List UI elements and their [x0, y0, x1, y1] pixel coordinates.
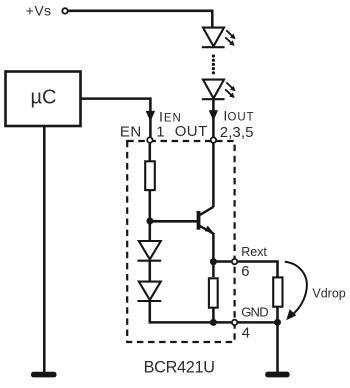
svg-text:OUT: OUT — [175, 123, 208, 140]
svg-text:µC: µC — [31, 86, 57, 108]
svg-text:Vdrop: Vdrop — [312, 286, 345, 300]
svg-text:Rext: Rext — [241, 245, 267, 259]
svg-text:BCR421U: BCR421U — [144, 358, 215, 376]
svg-text:EN: EN — [164, 112, 182, 124]
svg-text:+Vs: +Vs — [26, 3, 52, 19]
svg-text:EN: EN — [120, 123, 142, 140]
svg-text:GND: GND — [241, 305, 268, 320]
svg-text:6: 6 — [241, 264, 249, 280]
svg-text:4: 4 — [242, 325, 250, 341]
svg-text:1: 1 — [156, 123, 164, 140]
svg-text:I: I — [159, 109, 163, 125]
svg-text:OUT: OUT — [228, 112, 255, 124]
svg-text:2,3,5: 2,3,5 — [220, 124, 254, 141]
